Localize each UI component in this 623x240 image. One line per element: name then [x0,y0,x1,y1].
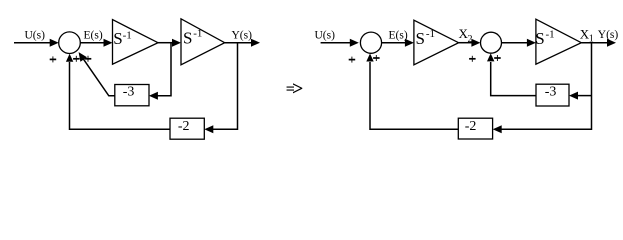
arrowhead: into -3 box left [149,92,158,100]
wire: right X2 line between integrator 1 and summing junction 2 [459,42,473,44]
wire: right summing junction 1 to integrator (E(s) line) [382,42,406,44]
svg-text:-1: -1 [426,28,435,40]
wire: left input U(s) line [14,42,51,44]
svg-text:-1: -1 [546,28,555,40]
wire: right branch to -3 input [578,95,592,97]
wire: right -2 output up to summing junction 1 [370,62,458,129]
arrowhead: -2 feedback into right summing junction 1 bottom [366,54,373,62]
gain box -2 right [458,118,492,139]
plus sign at left junction diagonal feedback [85,56,92,62]
svg-text:>: > [292,78,303,100]
plus sign at right junction 1 input [349,57,356,63]
summing junction right S3 [481,32,502,53]
wire: left -2 output back to summing junction [70,62,171,129]
arrowhead: into left summing junction [50,39,59,47]
summing junction right S2 [360,32,381,53]
plus sign at left junction vertical feedback [73,56,80,62]
plus sign at right junction 1 feedback [373,55,380,61]
wire: left output Y(s) line [225,42,252,44]
arrowhead: into integrator T1 [104,39,113,47]
arrowhead: into right summing junction 2 [471,39,480,47]
summing junction left S1 [59,32,81,54]
arrowhead: -3 feedback into right summing junction 2 bottom [487,53,494,61]
svg-text:-2: -2 [178,119,190,134]
arrowhead: into -2 box left [204,125,213,133]
gain box -3 right [536,84,569,106]
svg-text:S: S [535,29,544,48]
arrowhead: into integrator R2 [527,39,536,47]
arrowhead: into -2 box right [493,125,502,133]
svg-text:S: S [183,29,192,48]
wire: left -3 output diagonal to summing junction [82,56,115,96]
svg-text:1: 1 [589,34,594,45]
arrowhead: into integrator R1 [405,39,414,47]
arrowhead: left output Y(s) [251,39,260,47]
arrowhead: into -3 box right [569,92,578,100]
svg-text:Y(s): Y(s) [598,29,619,41]
plus sign at right junction 2 feedback [494,55,501,61]
wire: left tap from Y down to -2 input [213,43,238,130]
plus sign at right junction 2 input [469,56,476,62]
wire: right summing junction 2 to integrator 2 [502,42,529,44]
arrowhead: -3 feedback diagonal into left summing junction [79,52,87,62]
wire: left tap from between integrators down to -3 input [158,43,172,96]
svg-text:Y(s): Y(s) [232,30,253,42]
arrowhead: into right summing junction 1 [350,39,359,47]
op-amp integrator block T2 (S^-1) [181,19,225,65]
svg-text:U(s): U(s) [25,30,46,42]
op-amp integrator block R1 (S^-1) [414,20,459,65]
svg-text:2: 2 [468,34,473,45]
arrowhead: -2 feedback into left summing junction bottom [66,54,73,62]
wire: left summing junction to first integrator (E(s) line) [80,42,104,44]
wire: right output Y(s) line [581,42,608,44]
svg-text:U(s): U(s) [315,29,336,41]
svg-text:E(s): E(s) [389,29,408,41]
svg-text:S: S [113,29,122,48]
op-amp integrator block R2 (S^-1) [536,19,581,64]
arrowhead: into integrator T2 [172,39,181,47]
svg-text:-3: -3 [545,84,557,99]
op-amp integrator block T1 (S^-1) [113,20,159,65]
svg-text:-3: -3 [123,84,135,99]
wire: right tap from X1 down to -2 input [502,43,592,130]
gain box -2 left [170,118,204,139]
svg-text:-1: -1 [193,28,202,40]
svg-text:S: S [416,29,425,48]
arrowhead: right output Y(s) [607,39,616,47]
plus sign at left junction input [50,56,57,62]
wire: between left integrators [158,42,173,44]
svg-text:E(s): E(s) [84,30,103,42]
svg-text:-2: -2 [465,119,477,134]
gain box -3 left [115,85,149,106]
wire: right input U(s) line [321,42,351,44]
wire: right -3 output up to summing junction 2 [491,62,536,96]
svg-text:-1: -1 [123,29,132,41]
